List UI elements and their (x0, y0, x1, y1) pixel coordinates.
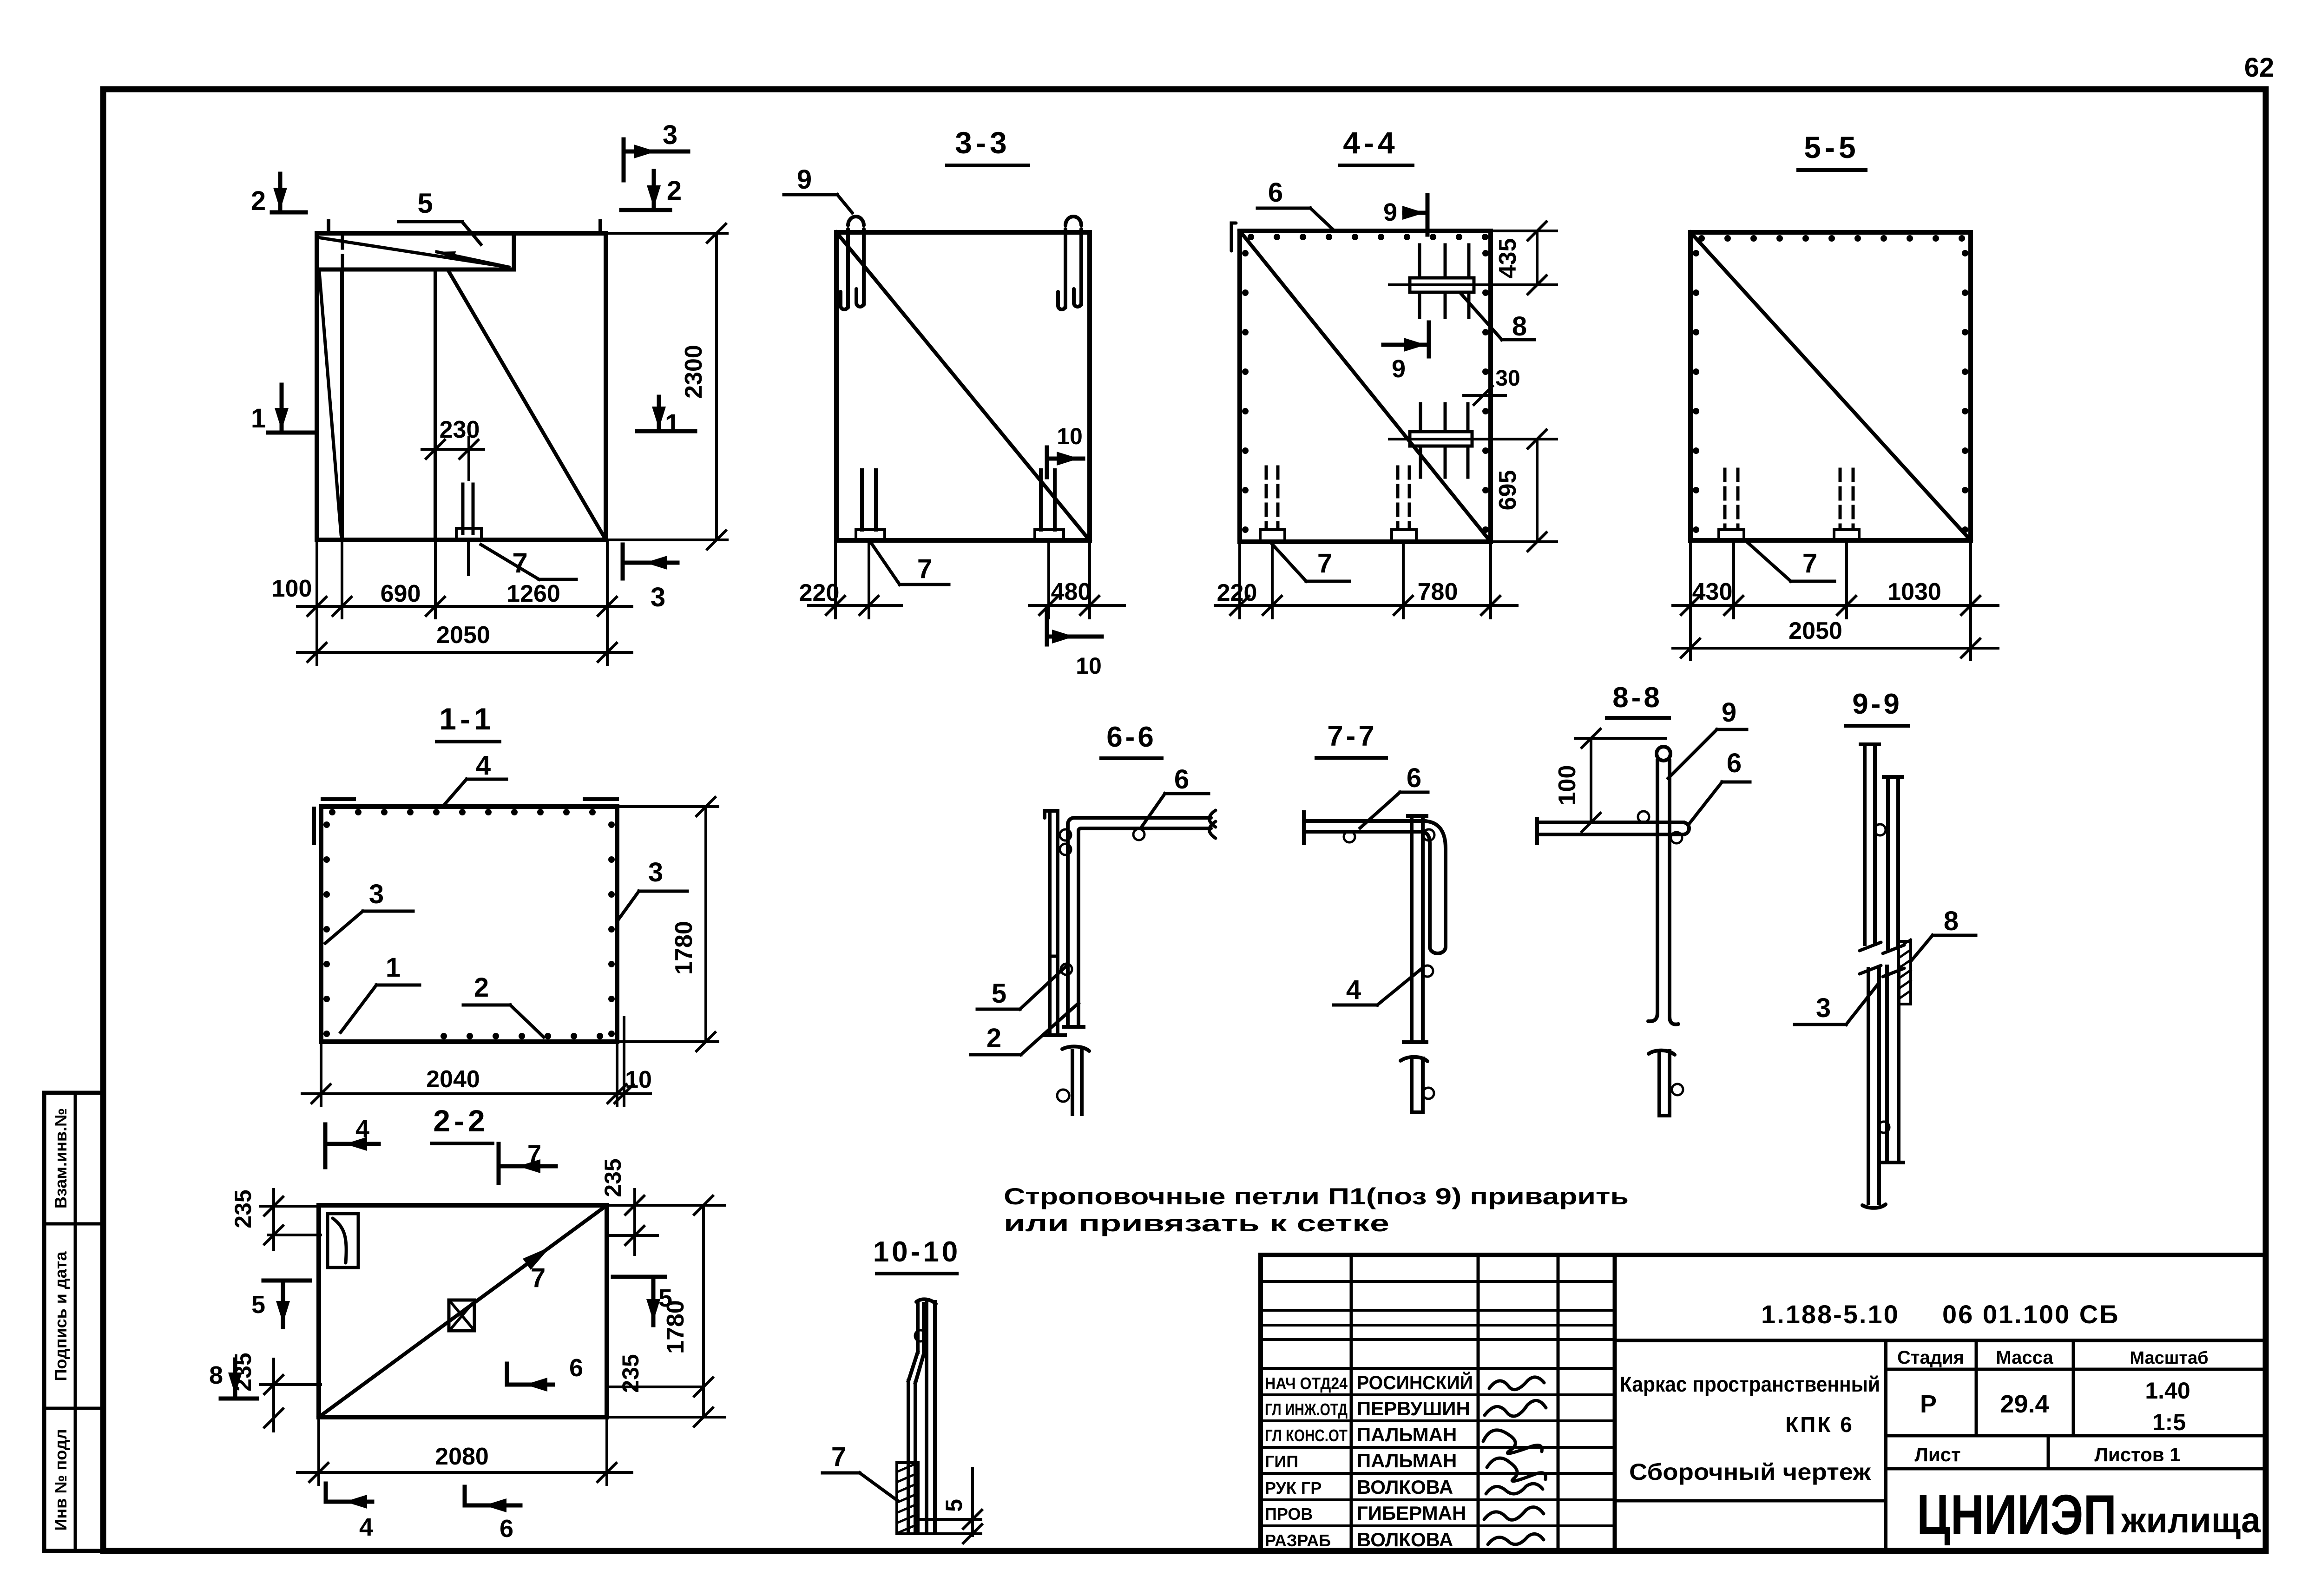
label 5 main view (399, 188, 481, 244)
svg-text:1:5: 1:5 (2152, 1409, 2186, 1435)
svg-text:4-4: 4-4 (1343, 125, 1398, 160)
svg-text:Сборочный чертеж: Сборочный чертеж (1629, 1459, 1871, 1485)
view 1-1 mesh dots top (329, 809, 596, 815)
svg-text:2080: 2080 (435, 1443, 489, 1470)
section 6-6 bent bar pos 6 horizontal (1064, 810, 1216, 1027)
dimension 220 view 3-3 (799, 540, 901, 618)
section 9-9 break marks (1860, 942, 1904, 977)
dimension 480 view 3-3 (1029, 540, 1124, 618)
label 6 view 4-4 (1257, 177, 1335, 231)
section 10-10 straight bar (916, 1299, 936, 1533)
section mark 9 top view 4-4 (1383, 195, 1427, 235)
view 1-1 corner brackets (314, 799, 617, 843)
svg-text:690: 690 (381, 580, 421, 607)
section mark 3 top-right (624, 120, 688, 180)
label 3 left view 1-1 (325, 879, 413, 943)
svg-text:3: 3 (648, 857, 663, 887)
svg-text:1780: 1780 (671, 921, 697, 975)
sheet row (1914, 1444, 2180, 1465)
section 6-6 weld circles (1060, 829, 1071, 841)
svg-text:Листов 1: Листов 1 (2094, 1444, 2180, 1465)
label 8 section 9-9 (1911, 906, 1976, 961)
svg-text:6: 6 (1407, 763, 1421, 793)
drawing title text (1620, 1372, 1880, 1485)
svg-text:2050: 2050 (1789, 617, 1842, 644)
title 5-5 (1798, 130, 1866, 170)
svg-text:1780: 1780 (662, 1300, 689, 1354)
view 1-1 mesh dots left (323, 821, 330, 1037)
section mark 4 top view 2-2 (325, 1115, 379, 1167)
svg-text:10-10: 10-10 (873, 1236, 961, 1268)
dimension 100 section 8-8 (1554, 729, 1666, 832)
view 5-5 diagonal (1690, 232, 1971, 540)
svg-text:7: 7 (531, 1263, 546, 1293)
label 1 view 1-1 (341, 952, 420, 1032)
svg-text:7-7: 7-7 (1327, 720, 1377, 752)
svg-text:235: 235 (230, 1353, 256, 1391)
svg-text:5: 5 (251, 1291, 265, 1319)
title block right structure (1615, 1340, 2266, 1551)
svg-text:8: 8 (1944, 906, 1959, 936)
svg-text:2: 2 (667, 176, 682, 206)
label 4 view 1-1 (445, 750, 506, 804)
section 7-7 vertical bar pos 4 (1404, 816, 1427, 1042)
title block outer (1261, 1255, 2266, 1551)
dimension 435 view 4-4 (1486, 222, 1557, 294)
label 2 section 6-6 (971, 1003, 1078, 1055)
main view wedge line A (321, 238, 509, 267)
svg-text:6-6: 6-6 (1106, 721, 1157, 753)
svg-text:4: 4 (476, 750, 491, 781)
title 2-2 (432, 1103, 493, 1143)
section 9-9 weld circles (1874, 824, 1886, 835)
svg-text:Взам.инв.№: Взам.инв.№ (51, 1108, 70, 1208)
svg-text:РОСИНСКИЙ: РОСИНСКИЙ (1357, 1371, 1473, 1393)
svg-text:6: 6 (569, 1354, 583, 1382)
lower spacer bar pos 8 view 4-4 (1389, 404, 1486, 477)
svg-text:Масштаб: Масштаб (2130, 1348, 2208, 1368)
section 6-6 vertical bar pos 5 (1044, 811, 1065, 1035)
left stamp box (44, 1093, 103, 1551)
view 5-5 mesh dots right (1962, 250, 1968, 533)
svg-text:8-8: 8-8 (1612, 682, 1663, 714)
view 4-4 mesh dots top (1248, 234, 1488, 240)
section mark 7 top view 2-2 (499, 1140, 556, 1183)
svg-text:Масса: Масса (1996, 1347, 2053, 1368)
section mark 8 left view 2-2 (209, 1360, 257, 1399)
section 8-8 horizontal bar pos 6 (1537, 819, 1689, 843)
lifting loop pair B view 3-3 (1058, 217, 1081, 309)
hidden anchor bars left view 4-4 (1260, 467, 1285, 542)
title block upper horizontals (1261, 1281, 1615, 1368)
svg-text:6: 6 (1268, 177, 1283, 208)
label 7 view 3-3 (869, 540, 949, 585)
svg-text:6: 6 (1174, 764, 1189, 795)
dimension 695 view 4-4 (1486, 430, 1557, 551)
svg-text:КПК 6: КПК 6 (1785, 1412, 1854, 1437)
svg-text:220: 220 (1217, 579, 1257, 606)
view 1-1 outline (321, 807, 617, 1042)
svg-text:ГЛ КОНС.ОТ: ГЛ КОНС.ОТ (1265, 1426, 1348, 1445)
svg-text:ПАЛЬМАН: ПАЛЬМАН (1357, 1424, 1457, 1445)
view 2-2 outline (319, 1205, 607, 1417)
main view dimension extensions (317, 540, 607, 664)
title 1-1 (437, 702, 500, 742)
svg-text:2: 2 (251, 186, 266, 216)
svg-text:3: 3 (369, 879, 384, 909)
section mark 6 inside view 2-2 (507, 1354, 583, 1392)
svg-text:29.4: 29.4 (2000, 1390, 2049, 1418)
label 7 view 4-4 (1271, 543, 1349, 581)
view 1-1 mesh dots bottom (441, 1033, 603, 1039)
svg-text:1-1: 1-1 (439, 702, 494, 736)
svg-text:06 01.100 СБ: 06 01.100 СБ (1942, 1300, 2119, 1329)
label 3 section 9-9 (1795, 985, 1877, 1025)
svg-text:9-9: 9-9 (1852, 688, 1902, 720)
svg-text:235: 235 (618, 1354, 644, 1392)
svg-text:ГИП: ГИП (1265, 1452, 1298, 1471)
title 10-10 (873, 1236, 961, 1274)
dimension 235 top-right view 2-2 (600, 1158, 658, 1254)
svg-text:ПРОВ: ПРОВ (1265, 1504, 1313, 1524)
svg-text:1.40: 1.40 (2145, 1378, 2190, 1404)
svg-text:1030: 1030 (1887, 578, 1941, 605)
svg-text:480: 480 (1051, 578, 1092, 605)
svg-text:9: 9 (1722, 697, 1736, 728)
dimension 235 bottom-left view 2-2 (230, 1353, 321, 1431)
dimension 230 main view (422, 416, 484, 479)
svg-text:1260: 1260 (506, 580, 560, 607)
svg-text:9: 9 (1383, 198, 1397, 226)
view 1-1 mesh dots right (608, 821, 615, 1037)
title 7-7 (1316, 720, 1386, 758)
svg-text:Лист: Лист (1914, 1444, 1960, 1465)
hidden anchor bars right view 5-5 (1834, 469, 1859, 540)
view 5-5 outline (1690, 232, 1971, 540)
dimension row 100 690 1260 (272, 575, 632, 616)
svg-text:5: 5 (992, 979, 1006, 1009)
view 4-4 mesh dots right (1482, 250, 1489, 533)
svg-text:4: 4 (1346, 975, 1361, 1005)
view 4-4 corner bracket (1231, 223, 1236, 251)
svg-text:430: 430 (1692, 578, 1733, 605)
dimension 2300 main view (606, 224, 727, 549)
svg-text:ВОЛКОВА: ВОЛКОВА (1357, 1529, 1453, 1550)
dimension 235 bottom-right view 2-2 (607, 1354, 713, 1396)
section 7-7 bent bar pos 6 with hook (1304, 812, 1446, 953)
svg-text:100: 100 (1554, 765, 1581, 806)
logo ЦНИИЭП жилища (1917, 1483, 2261, 1546)
section mark 5 right view 2-2 (613, 1277, 672, 1325)
section mark 4 bottom view 2-2 (326, 1484, 373, 1541)
left stamp divider 1 (44, 1222, 103, 1226)
anchor plate pos 7 section 10-10 (897, 1463, 918, 1534)
view 4-4 diagonal (1240, 231, 1491, 542)
dimension 235 top-left view 2-2 (230, 1189, 321, 1250)
title 4-4 (1340, 125, 1413, 165)
svg-text:5-5: 5-5 (1804, 130, 1859, 164)
svg-text:3: 3 (1816, 993, 1831, 1023)
section 6-6 lower bar segment (1057, 1046, 1089, 1114)
section mark 2 top-left (251, 174, 306, 216)
main view top plate (pos 5) (317, 233, 514, 269)
svg-text:30: 30 (1495, 366, 1520, 391)
title 3-3 (947, 125, 1028, 165)
svg-text:ЦНИИЭП: ЦНИИЭП (1917, 1483, 2117, 1546)
dimension 2050 view 5-5 (1673, 617, 1998, 657)
svg-text:4: 4 (355, 1115, 369, 1143)
svg-text:ПЕРВУШИН: ПЕРВУШИН (1357, 1398, 1470, 1419)
main view left thin diagonal (319, 271, 341, 534)
label 2 view 1-1 (463, 972, 544, 1037)
svg-text:235: 235 (600, 1158, 626, 1197)
section mark 1 left (251, 385, 317, 433)
svg-text:10: 10 (625, 1066, 652, 1093)
svg-text:7: 7 (512, 547, 527, 578)
label 7 main view leader (481, 545, 576, 579)
label 5 section 6-6 (977, 965, 1067, 1009)
svg-text:1: 1 (386, 952, 401, 983)
section mark 5 left view 2-2 (251, 1281, 310, 1327)
svg-text:780: 780 (1418, 578, 1458, 605)
main view inner vertical x=736 (340, 269, 344, 540)
section mark 1 right (637, 397, 695, 439)
section mark 2 top-right (621, 171, 682, 210)
section mark 9 middle view 4-4 (1383, 322, 1429, 383)
label 6 section 8-8 (1690, 748, 1750, 823)
svg-text:435: 435 (1494, 238, 1521, 279)
svg-text:НАЧ ОТД24: НАЧ ОТД24 (1265, 1374, 1348, 1393)
svg-text:220: 220 (799, 579, 840, 606)
svg-text:695: 695 (1494, 470, 1521, 511)
dimension 1780 view 1-1 (617, 797, 718, 1051)
section mark 10 lower view 3-3 (1047, 611, 1102, 679)
svg-text:7: 7 (1802, 548, 1817, 578)
svg-text:2040: 2040 (426, 1066, 480, 1093)
main view big diagonal (448, 270, 606, 540)
main view anchor bars (pos 7) (456, 484, 481, 575)
label 9 view 3-3 (784, 164, 852, 213)
svg-text:2: 2 (474, 972, 489, 1003)
svg-text:РУК ГР: РУК ГР (1265, 1478, 1322, 1497)
svg-text:3-3: 3-3 (955, 125, 1010, 160)
svg-text:жилища: жилища (2121, 1501, 2261, 1540)
view 3-3 outline (836, 232, 1090, 540)
svg-text:9: 9 (797, 164, 812, 195)
left stamp divider 2 (44, 1407, 103, 1410)
middle plate detail view 2-2 (449, 1300, 474, 1331)
upper spacer bar pos 8 view 4-4 (1389, 245, 1486, 317)
title 9-9 (1846, 688, 1908, 726)
anchor bars left view 3-3 (856, 470, 885, 540)
dimension 2040 and 10 view 1-1 (302, 1018, 652, 1106)
view 3-3 diagonal (836, 232, 1090, 540)
label 3 right view 1-1 (617, 857, 687, 921)
view 4-4 outline (1240, 231, 1491, 542)
dimension 430 1030 view 5-5 (1673, 540, 1998, 660)
dimension 220 780 view 4-4 (1215, 542, 1517, 618)
svg-text:2: 2 (986, 1023, 1001, 1053)
svg-text:Подпись и дата: Подпись и дата (51, 1251, 70, 1381)
title block verticals small table (1351, 1255, 1615, 1551)
svg-text:2-2: 2-2 (433, 1103, 488, 1138)
section 9-9 upper bars pos 3 (1861, 744, 1902, 948)
svg-text:10: 10 (1057, 423, 1083, 449)
label 8 view 4-4 (1461, 294, 1534, 342)
title block staff labels (1265, 1371, 1473, 1550)
svg-text:7: 7 (1317, 548, 1332, 578)
svg-text:Стадия: Стадия (1897, 1347, 1964, 1368)
svg-text:3: 3 (663, 120, 677, 150)
svg-text:62: 62 (2244, 53, 2275, 83)
svg-text:РАЗРАБ: РАЗРАБ (1265, 1531, 1331, 1550)
main view wedge line B (437, 252, 509, 267)
main view middle vertical x=937 (434, 269, 437, 540)
title block staff row lines (1261, 1395, 1615, 1526)
label 7 section 10-10 (822, 1442, 898, 1501)
svg-text:7: 7 (831, 1442, 846, 1472)
svg-text:ПАЛЬМАН: ПАЛЬМАН (1357, 1450, 1457, 1471)
spacer plate pos 8 section 9-9 (1899, 939, 1911, 1004)
svg-text:4: 4 (359, 1513, 373, 1541)
svg-text:5: 5 (417, 188, 433, 219)
svg-text:2300: 2300 (680, 345, 707, 399)
label 6 section 6-6 (1142, 764, 1209, 826)
svg-text:230: 230 (440, 416, 480, 443)
signatures (1483, 1377, 1546, 1544)
svg-text:6: 6 (500, 1515, 513, 1543)
svg-text:7: 7 (917, 554, 932, 584)
svg-text:1: 1 (251, 403, 266, 433)
svg-text:10: 10 (1076, 653, 1102, 679)
section 9-9 lower bars pos 3 (1862, 966, 1903, 1208)
svg-text:100: 100 (272, 575, 312, 602)
title 6-6 (1101, 721, 1162, 758)
title 8-8 (1607, 682, 1669, 718)
section 7-7 weld circles (1344, 831, 1355, 842)
svg-text:Инв № подл: Инв № подл (51, 1429, 70, 1531)
hidden anchor bars right view 4-4 (1392, 467, 1416, 542)
stadia mass scale header (1897, 1347, 2209, 1368)
svg-text:Каркас пространственный: Каркас пространственный (1620, 1372, 1880, 1396)
stadia mass scale values (1920, 1378, 2190, 1435)
svg-text:5: 5 (941, 1499, 967, 1512)
svg-text:8: 8 (209, 1361, 223, 1389)
label 7 view 5-5 (1746, 541, 1835, 581)
view 2-2 diagonal pos 7 (319, 1205, 607, 1417)
section mark 10 upper view 3-3 (1047, 423, 1083, 477)
main view dashed edge wire (341, 236, 344, 269)
label 4 section 7-7 (1334, 969, 1421, 1005)
view 5-5 mesh dots left (1693, 250, 1699, 533)
section 8-8 weld circles (1638, 811, 1649, 822)
left stamp divider vertical (74, 1093, 77, 1551)
svg-text:ГЛ ИНЖ.ОТД: ГЛ ИНЖ.ОТД (1265, 1400, 1348, 1419)
view 5-5 mesh dots top (1698, 235, 1965, 242)
svg-text:ГИБЕРМАН: ГИБЕРМАН (1357, 1502, 1466, 1524)
svg-text:1: 1 (665, 409, 680, 439)
main view end ticks (329, 221, 600, 233)
section 10-10 jogged bar (908, 1304, 924, 1533)
svg-text:Р: Р (1920, 1390, 1937, 1418)
section 7-7 lower bar segment (1401, 1057, 1434, 1112)
label 9 section 8-8 (1668, 697, 1747, 778)
anchor bars right view 3-3 (1035, 470, 1064, 540)
svg-text:235: 235 (230, 1189, 256, 1228)
svg-text:или привязать к сетке: или привязать к сетке (1004, 1210, 1389, 1236)
section mark 6 bottom view 2-2 (465, 1487, 520, 1543)
dimension 5 section 10-10 (916, 1468, 982, 1543)
svg-text:8: 8 (1512, 311, 1527, 342)
section 10-10 weld circle (915, 1330, 926, 1341)
svg-text:3: 3 (651, 582, 665, 612)
svg-text:9: 9 (1392, 355, 1406, 383)
dimension 1780 view 2-2 (607, 1196, 725, 1426)
section 8-8 lower bar segment (1649, 1051, 1683, 1116)
dimension 2080 view 2-2 (297, 1417, 632, 1484)
dimension 30 view 4-4 (1464, 366, 1520, 405)
svg-text:6: 6 (1727, 748, 1742, 778)
section mark 3 bottom-right (623, 545, 677, 612)
svg-text:2050: 2050 (436, 622, 490, 649)
corner plate detail view 2-2 (328, 1214, 358, 1268)
svg-text:ВОЛКОВА: ВОЛКОВА (1357, 1476, 1453, 1498)
svg-text:Строповочные петли П1(поз 9) п: Строповочные петли П1(поз 9) приварить (1004, 1183, 1629, 1209)
main view outline (317, 233, 606, 540)
hidden anchor bars left view 5-5 (1719, 469, 1744, 540)
section 8-8 lifting loop pos 9 (1648, 747, 1678, 1025)
view 4-4 mesh dots left (1242, 250, 1249, 533)
dimension 2050 main view (297, 622, 632, 662)
label 6 section 7-7 (1360, 763, 1428, 828)
lifting loop pair A view 3-3 (841, 217, 864, 309)
svg-text:1.188-5.10: 1.188-5.10 (1761, 1300, 1900, 1329)
